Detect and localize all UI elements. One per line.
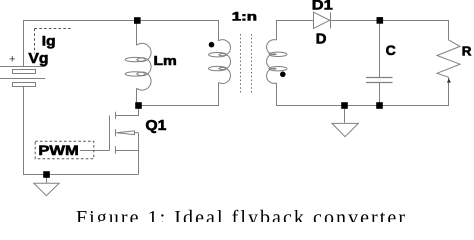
svg-text:+: + xyxy=(9,54,15,66)
svg-text:R: R xyxy=(462,43,472,58)
svg-text:Ig: Ig xyxy=(42,33,56,49)
svg-text:Figure 1: Ideal flyback conver: Figure 1: Ideal flyback converter xyxy=(76,207,405,222)
svg-text:D1: D1 xyxy=(312,0,333,12)
svg-text:Q1: Q1 xyxy=(145,117,166,134)
svg-text:PWM: PWM xyxy=(38,142,78,158)
svg-text:Vg: Vg xyxy=(28,50,48,67)
svg-text:1:n: 1:n xyxy=(232,10,257,23)
svg-text:D: D xyxy=(316,31,327,48)
svg-text:Lm: Lm xyxy=(154,53,177,68)
svg-text:C: C xyxy=(386,43,396,58)
